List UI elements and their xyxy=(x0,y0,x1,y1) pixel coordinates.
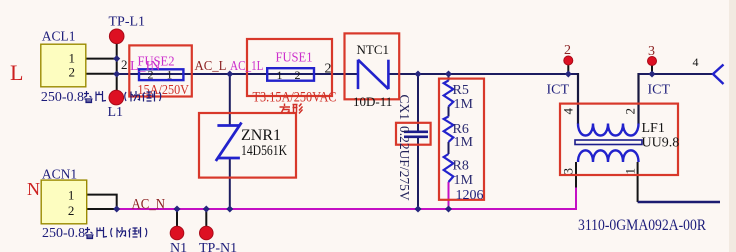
svg-text:15A/250V: 15A/250V xyxy=(138,83,190,98)
svg-text:3: 3 xyxy=(561,168,576,175)
capacitor CX1 plates xyxy=(404,132,428,137)
red highlight box R5 R6 R8 xyxy=(439,79,484,200)
wire stub test point 2 xyxy=(567,63,569,74)
svg-text:250-0.8: 250-0.8 xyxy=(42,226,85,241)
connector ACN1 caption CJK cha pian (fang dao) xyxy=(85,227,147,239)
svg-text:ACN1: ACN1 xyxy=(42,167,77,182)
wire stub test point 3 xyxy=(651,63,653,74)
junction (418,209) xyxy=(414,205,421,212)
svg-text:2: 2 xyxy=(69,65,76,80)
wire ZNR1 bottom vertical xyxy=(229,158,231,209)
varistor ZNR1 symbol xyxy=(216,123,242,162)
inductor LF1 bottom winding xyxy=(578,150,639,162)
svg-text:CX1: CX1 xyxy=(397,95,412,121)
svg-text:2: 2 xyxy=(68,203,75,218)
wire R6-R8 lead xyxy=(448,142,450,154)
svg-text:0.22UF/275V: 0.22UF/275V xyxy=(397,126,412,201)
svg-text:FUSE1: FUSE1 xyxy=(276,50,313,65)
connector ACL1 body xyxy=(41,44,86,87)
svg-text:2: 2 xyxy=(121,57,128,72)
wire N net bottom magenta xyxy=(117,208,576,210)
fuse F2 body xyxy=(139,69,183,80)
test point 2 dot xyxy=(564,56,573,65)
wire main L net left xyxy=(117,73,358,75)
wire R5-R6 lead xyxy=(448,107,450,117)
red highlight box FUSE1 xyxy=(247,39,332,96)
svg-text:4: 4 xyxy=(561,108,576,115)
svg-text:2: 2 xyxy=(623,108,638,115)
square-shape note (fang xing) xyxy=(280,104,303,114)
test point 3 dot xyxy=(648,57,657,66)
wire CX1 bottom vertical xyxy=(417,137,419,209)
wire LF1 pin2 vertical xyxy=(637,73,639,124)
svg-text:1M: 1M xyxy=(454,135,474,150)
junction (116.7,74) xyxy=(113,70,120,77)
svg-text:2: 2 xyxy=(295,68,301,82)
wire R5 top stub xyxy=(448,74,450,81)
wire ACL1 pin1 lead xyxy=(86,58,117,60)
wire CX1 top vertical xyxy=(417,74,419,132)
wire output bottom navy xyxy=(638,201,720,203)
red highlight box LF1 xyxy=(560,104,678,175)
wire LF1 pin3 magenta vertical xyxy=(575,188,577,211)
inductor LF1 core xyxy=(575,140,642,145)
junction (206.3,209) xyxy=(203,205,210,212)
svg-text:1M: 1M xyxy=(454,97,474,112)
resistor R8 zigzag xyxy=(444,154,454,182)
test pad TP-L1 dot xyxy=(109,29,124,44)
svg-text:1: 1 xyxy=(277,68,283,82)
svg-text:ICT: ICT xyxy=(547,83,570,98)
svg-text:ACL1: ACL1 xyxy=(42,29,76,44)
svg-text:3110-0GMA092A-00R: 3110-0GMA092A-00R xyxy=(578,217,706,234)
wire N1 stub xyxy=(176,209,178,227)
junction (448.5,209) xyxy=(445,205,452,212)
svg-text:ZNR1: ZNR1 xyxy=(241,127,281,144)
test pad L1 dot xyxy=(109,90,124,105)
junction (116.7,58.6) xyxy=(113,55,120,62)
svg-text:2: 2 xyxy=(564,43,571,58)
junction (652,74) xyxy=(648,70,655,77)
svg-text:TP-L1: TP-L1 xyxy=(109,15,146,30)
wire ACL1 pin2 lead xyxy=(86,73,117,75)
wire LF1 pin3 black lead xyxy=(575,162,577,188)
wire LF1 pin4 vertical xyxy=(577,73,579,124)
fuse F1 body xyxy=(267,68,314,81)
connector ACL1 caption CJK cha pian (fang dao) xyxy=(84,91,161,103)
junction (229.8,74) xyxy=(226,70,233,77)
wire ACN1 pin2 lead xyxy=(87,208,117,210)
output connector arrowhead xyxy=(713,65,724,85)
thermistor NTC1 symbol xyxy=(358,60,388,89)
svg-text:AC_N: AC_N xyxy=(132,197,166,213)
resistor R6 zigzag xyxy=(444,117,454,143)
svg-text:1M: 1M xyxy=(454,173,474,188)
svg-text:T3.15A/250VAC: T3.15A/250VAC xyxy=(253,90,337,106)
svg-text:R5: R5 xyxy=(453,83,469,98)
svg-text:AC_L: AC_L xyxy=(195,59,227,74)
svg-text:N: N xyxy=(27,179,40,199)
svg-text:LF1: LF1 xyxy=(642,121,665,136)
svg-text:3: 3 xyxy=(648,44,655,59)
wire output top xyxy=(639,73,714,75)
connector ACN1 body xyxy=(41,180,86,224)
svg-text:L: L xyxy=(10,60,23,85)
svg-text:NTC1: NTC1 xyxy=(357,42,390,57)
svg-text:1: 1 xyxy=(167,68,173,82)
svg-text:1: 1 xyxy=(68,188,75,203)
inductor LF1 top winding xyxy=(578,124,639,136)
junction (116.7,209) xyxy=(113,205,120,212)
wire vertical TP-L1 to L1 xyxy=(116,42,118,92)
svg-text:4: 4 xyxy=(693,55,699,69)
svg-text:10D-11: 10D-11 xyxy=(353,94,392,109)
junction (177,209) xyxy=(173,205,180,212)
svg-text:L_IN: L_IN xyxy=(130,59,160,74)
junction (568.3,74) xyxy=(565,70,572,77)
svg-text:ICT: ICT xyxy=(648,83,671,98)
red highlight box FUSE2 xyxy=(129,45,192,96)
svg-text:N1: N1 xyxy=(170,241,187,252)
svg-text:250-0.8: 250-0.8 xyxy=(41,90,84,105)
junction (229.8,209) xyxy=(226,205,233,212)
wire LF1 pin1 black lead xyxy=(637,162,639,202)
red highlight box NTC1 xyxy=(345,33,400,99)
svg-text:1206: 1206 xyxy=(456,188,484,203)
svg-text:UU9.8: UU9.8 xyxy=(642,136,680,151)
wire ZNR1 top vertical xyxy=(229,74,231,126)
svg-text:1: 1 xyxy=(69,50,76,65)
wire TP-N1 stub xyxy=(205,209,207,227)
svg-text:2: 2 xyxy=(325,62,332,77)
scan edge shading right xyxy=(729,0,736,252)
test pad TP-N1 dot xyxy=(200,226,214,240)
junction (418,74) xyxy=(414,70,421,77)
svg-text:TP-N1: TP-N1 xyxy=(199,241,237,252)
red highlight box CX1 xyxy=(396,123,431,145)
svg-text:R8: R8 xyxy=(453,159,469,174)
svg-text:14D561K: 14D561K xyxy=(241,143,287,159)
red highlight box ZNR1 xyxy=(199,113,296,178)
junction (448.5,74) xyxy=(445,70,452,77)
wire R8 bottom magenta xyxy=(448,182,450,209)
test pad N1 dot xyxy=(170,226,184,240)
wire main L net right of NTC xyxy=(388,73,578,75)
resistor R5 zigzag xyxy=(444,81,454,107)
svg-text:AC_1L: AC_1L xyxy=(230,59,264,74)
wire ACN1 pin1 lead xyxy=(87,195,117,209)
svg-text:L1: L1 xyxy=(108,105,124,120)
svg-text:1: 1 xyxy=(623,168,638,175)
